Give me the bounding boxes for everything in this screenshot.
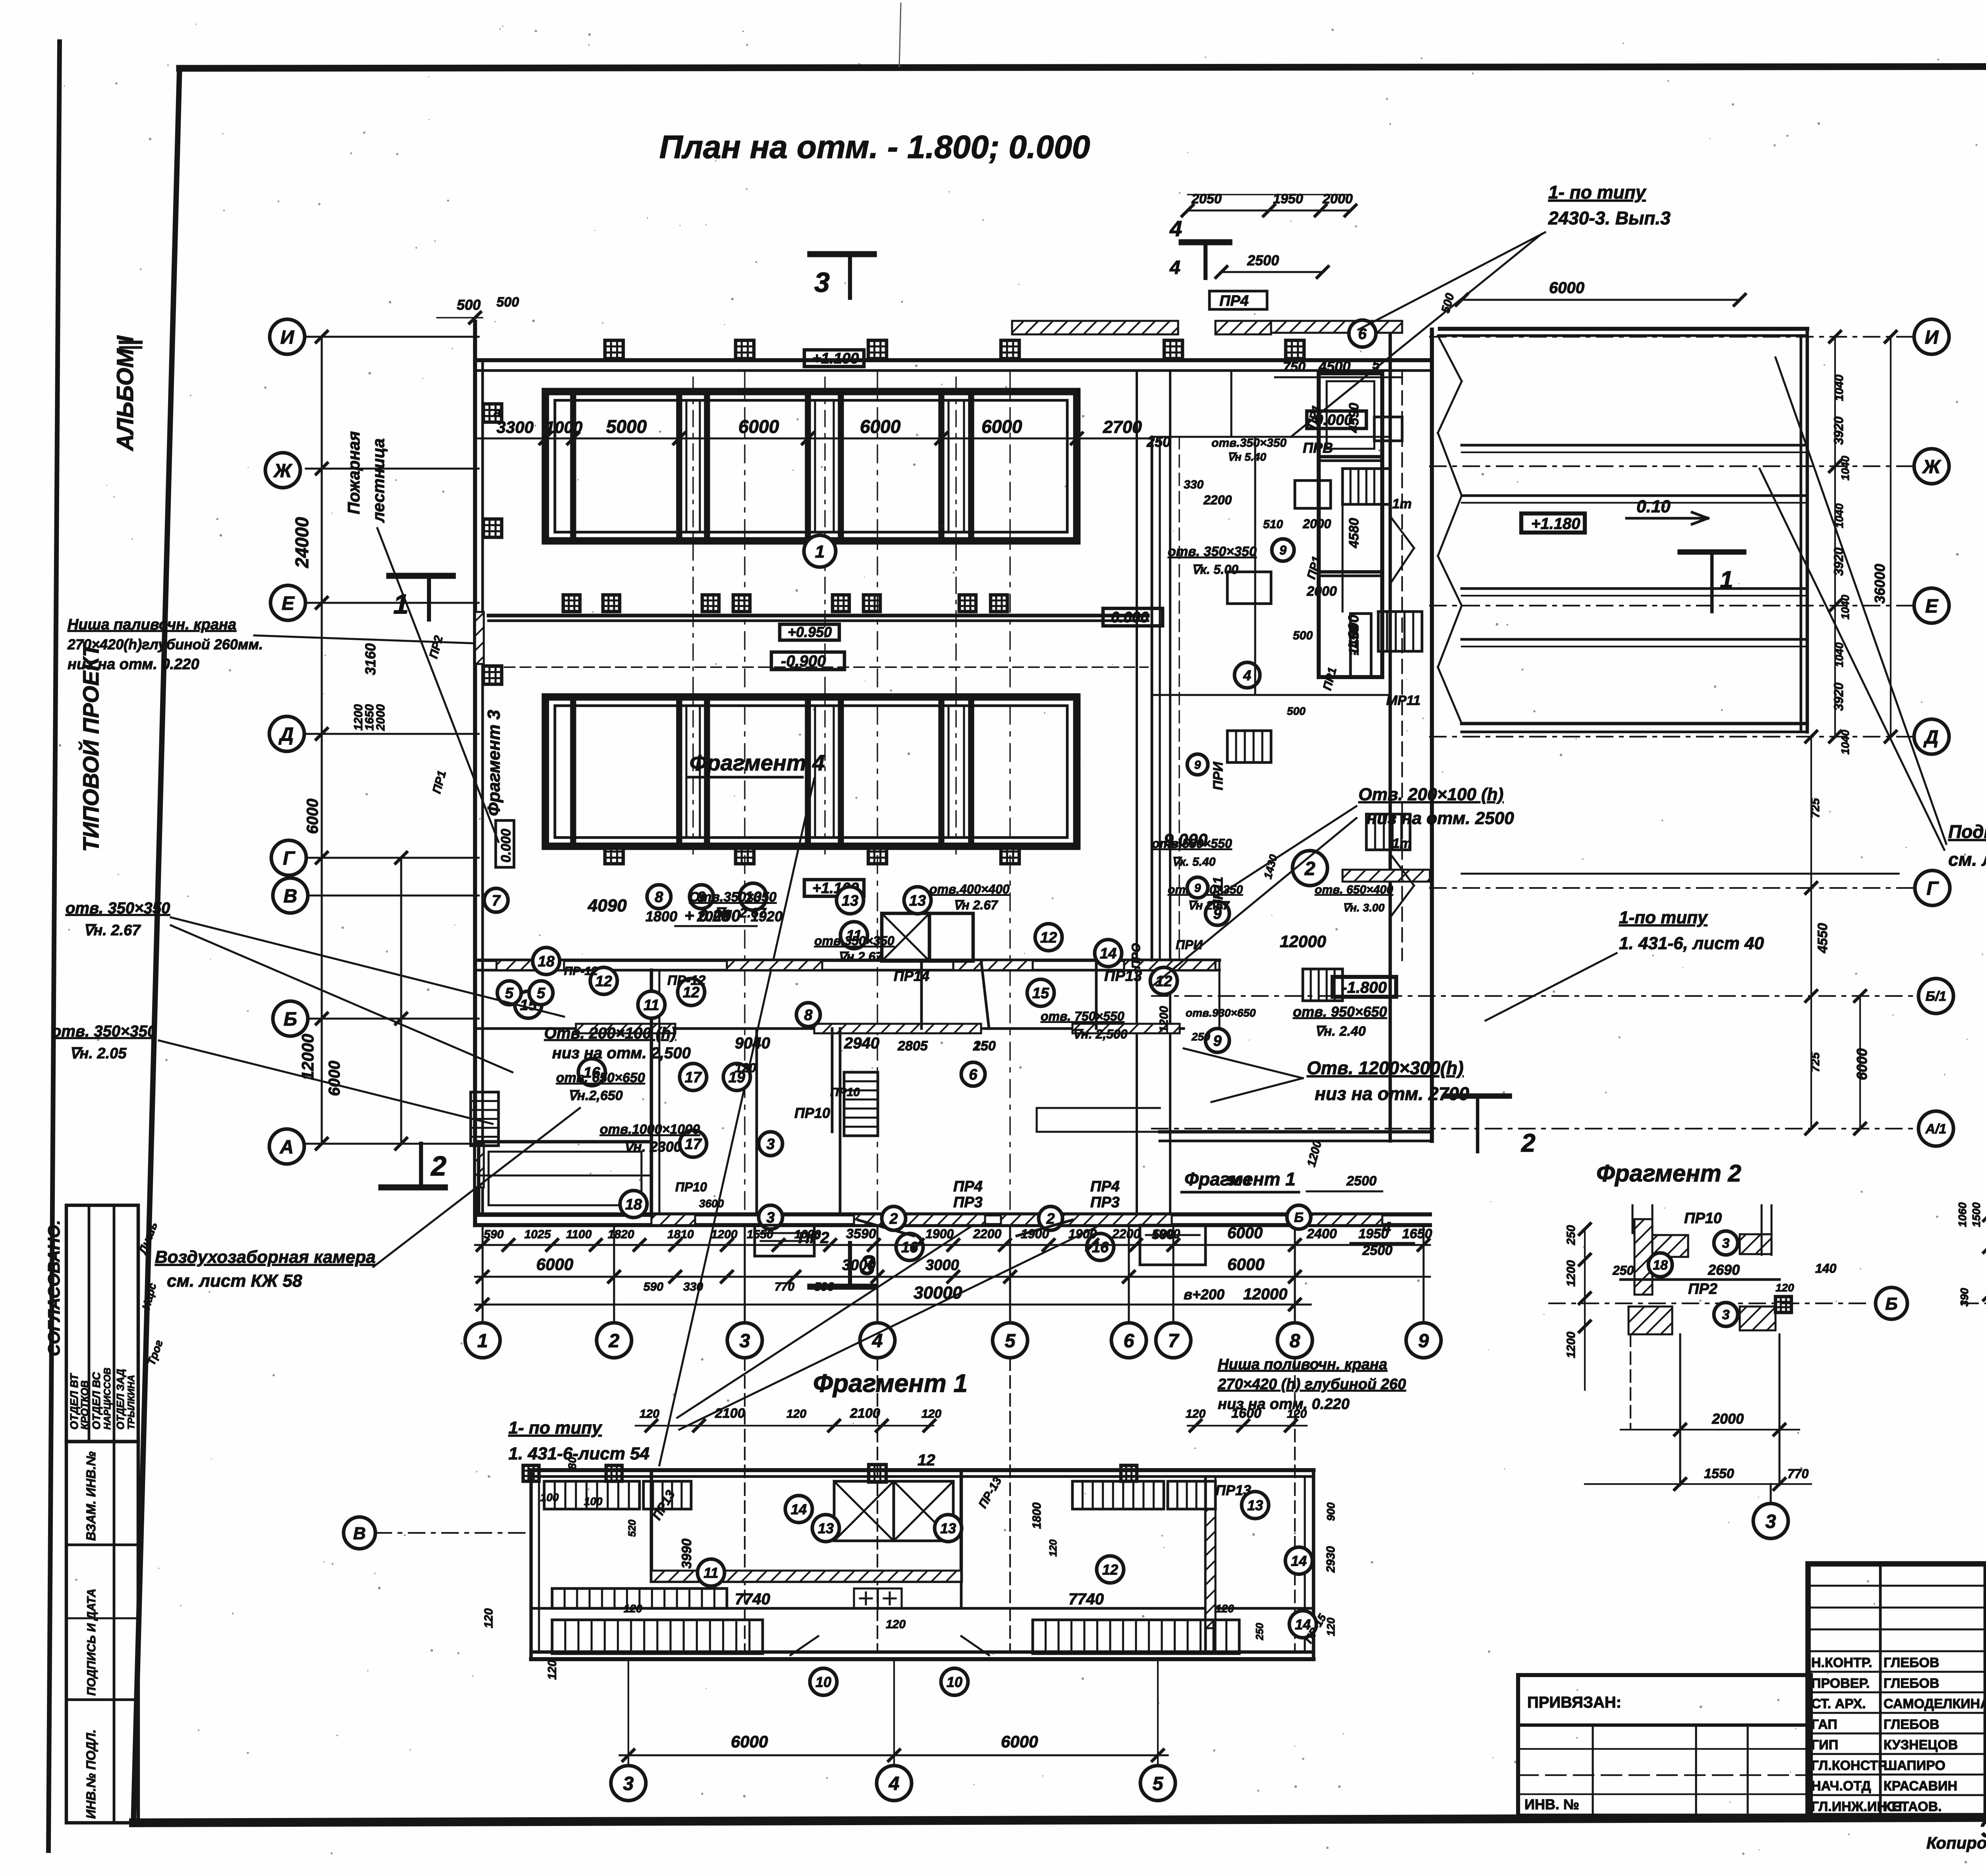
otv 350 row G	[689, 882, 1243, 921]
svg-text:Воздухозаборная камера: Воздухозаборная камера	[155, 1247, 376, 1267]
svg-text:+0.950: +0.950	[788, 624, 832, 640]
room 13b	[904, 887, 931, 914]
f1 bottom wall	[531, 1652, 1314, 1659]
svg-text:12000: 12000	[1280, 932, 1326, 951]
axis circle 1	[465, 1323, 500, 1358]
rp section2 flag	[1446, 1096, 1536, 1157]
dept table	[66, 1205, 138, 1442]
otv350 lower	[52, 1023, 156, 1062]
svg-text:ПРИВЯЗАН:: ПРИВЯЗАН:	[1527, 1694, 1621, 1711]
svg-text:12: 12	[918, 1451, 935, 1469]
rp 36000	[1872, 331, 1896, 742]
svg-text:2: 2	[430, 1150, 446, 1181]
entry porches	[755, 1225, 1206, 1265]
svg-text:6000: 6000	[1001, 1732, 1038, 1751]
niche text	[67, 616, 263, 673]
room 11	[840, 922, 867, 949]
f2 mid line	[1612, 1261, 1837, 1280]
rp top wall	[1440, 329, 1807, 336]
hall top dims	[1182, 191, 1356, 216]
nisha text 2	[1217, 1356, 1406, 1413]
level +1.100	[804, 350, 864, 367]
svg-text:отв.400×400: отв.400×400	[929, 882, 1010, 896]
rp axis circle G	[1915, 870, 1950, 905]
fire ladder leader	[377, 528, 498, 842]
svg-text:11: 11	[643, 997, 659, 1014]
svg-text:1060: 1060	[1956, 1202, 1969, 1227]
titleblock outline	[1808, 1564, 1986, 1816]
room 15b	[1027, 979, 1054, 1006]
hall extra boxes	[1227, 417, 1402, 1001]
f1 upper room	[651, 1470, 961, 1582]
svg-text:ГЛЕБОВ: ГЛЕБОВ	[1884, 1676, 1939, 1691]
svg-text:6000: 6000	[981, 416, 1022, 437]
texts 500 1500 hall	[1227, 1139, 1382, 1191]
stacked tanks main	[1319, 373, 1382, 677]
rp right wall	[1801, 329, 1807, 732]
svg-text:120: 120	[639, 1407, 659, 1421]
svg-text:3920: 3920	[1831, 683, 1846, 711]
svg-text:низ на отм. 2500: низ на отм. 2500	[1366, 809, 1514, 828]
svg-text:И: И	[1925, 327, 1939, 348]
rp top ann	[1548, 182, 1671, 228]
svg-text:270×420(h)глубиной 260мм.: 270×420(h)глубиной 260мм.	[67, 636, 263, 652]
axis leader lines bottom	[483, 1225, 1424, 1322]
svg-text:ИНВ. №: ИНВ. №	[1524, 1796, 1579, 1812]
svg-text:МР11: МР11	[1386, 693, 1420, 708]
room 8b	[796, 1003, 820, 1027]
f1 door arcs	[790, 1636, 989, 1655]
upper int dim text	[496, 416, 1171, 450]
podpor text	[1948, 821, 1986, 870]
svg-text:7: 7	[492, 893, 501, 909]
room 17b	[680, 1130, 707, 1157]
svg-text:∇н. 2300: ∇н. 2300	[624, 1139, 682, 1155]
svg-text:6000: 6000	[731, 1732, 768, 1751]
f1 Zh circle	[344, 1517, 531, 1549]
circle 4 hall	[1234, 662, 1260, 688]
svg-text:120: 120	[1047, 1539, 1059, 1557]
svg-text:770: 770	[1787, 1467, 1809, 1481]
room 12a	[1035, 924, 1062, 951]
f1 axis lines	[745, 1358, 1295, 1652]
svg-text:13: 13	[940, 1520, 956, 1536]
rp 6000 low	[1854, 990, 1870, 1134]
svg-text:Г: Г	[283, 848, 296, 869]
svg-text:14: 14	[1291, 1553, 1307, 1569]
svg-text:9: 9	[1194, 759, 1201, 772]
svg-text:отв. 950×650: отв. 950×650	[1293, 1004, 1387, 1020]
otv350 upper	[66, 899, 170, 939]
top dims small	[1188, 194, 1350, 195]
svg-text:6000: 6000	[1227, 1224, 1263, 1242]
svg-text:7: 7	[1168, 1330, 1180, 1351]
svg-text:1040: 1040	[1833, 642, 1845, 667]
svg-text:1650: 1650	[1402, 1226, 1432, 1241]
label PR11 rot	[1194, 756, 1226, 909]
svg-text:2430-3. Вып.3: 2430-3. Вып.3	[1548, 208, 1671, 228]
svg-text:1040: 1040	[1839, 594, 1851, 620]
svg-text:3920: 3920	[1831, 417, 1846, 445]
svg-text:7740: 7740	[735, 1590, 770, 1608]
svg-text:Б: Б	[284, 1009, 297, 1030]
svg-text:330: 330	[683, 1280, 703, 1293]
svg-text:1. 431-6, лист 40: 1. 431-6, лист 40	[1619, 934, 1764, 953]
svg-text:1020: 1020	[794, 1228, 821, 1241]
svg-text:520: 520	[626, 1519, 638, 1537]
axis circle I	[270, 319, 305, 354]
po tipu 54 leaders	[677, 1225, 1096, 1430]
level 0.000 hall	[1307, 411, 1366, 428]
svg-text:ПР10: ПР10	[1684, 1210, 1722, 1227]
svg-text:250: 250	[1191, 1031, 1210, 1043]
f1 top dims right	[1186, 1406, 1307, 1431]
otv950	[1293, 1004, 1387, 1039]
svg-text:18: 18	[625, 1197, 642, 1213]
inv no label	[1524, 1796, 1579, 1812]
svg-text:14: 14	[791, 1501, 807, 1517]
svg-text:4580: 4580	[1347, 518, 1362, 548]
axis circle 9	[1406, 1323, 1441, 1358]
svg-text:Копировал: Копировал	[1926, 1834, 1986, 1852]
titleblock names	[1811, 1648, 1986, 1814]
f2 verticals	[1631, 1334, 1779, 1485]
svg-text:5: 5	[1153, 1773, 1164, 1794]
fire ladder label	[344, 431, 388, 523]
otv200 leaders	[1154, 806, 1356, 985]
f1 left texts	[482, 1457, 578, 1628]
dim 2500	[1216, 252, 1328, 278]
svg-text:120: 120	[1775, 1282, 1794, 1294]
rp axis circle E	[1914, 588, 1949, 623]
svg-text:ВЗАМ. ИНВ.№: ВЗАМ. ИНВ.№	[84, 1451, 98, 1541]
room 16b	[896, 1233, 923, 1260]
svg-text:2500: 2500	[1346, 1173, 1377, 1189]
svg-text:3: 3	[860, 1250, 875, 1281]
svg-text:5: 5	[537, 985, 545, 1002]
main plan title	[659, 129, 1090, 165]
dept sign squiggles	[136, 1220, 165, 1367]
svg-text:6000: 6000	[738, 416, 779, 437]
f1 texts dims	[546, 1495, 1337, 1680]
room 12d	[1150, 967, 1177, 994]
svg-text:1600: 1600	[1231, 1406, 1262, 1421]
f1 cross braces	[834, 1465, 953, 1541]
signature big	[1976, 1806, 1986, 1843]
svg-text:ИНВ.№ ПОДЛ.: ИНВ.№ ПОДЛ.	[84, 1729, 98, 1819]
level +0.950	[780, 624, 839, 640]
svg-text:6000: 6000	[326, 1061, 343, 1096]
svg-text:ПРИ: ПРИ	[1176, 938, 1203, 952]
bottom dim row 3	[475, 1283, 1311, 1310]
svg-text:1. 431-6-лист 54: 1. 431-6-лист 54	[508, 1444, 649, 1463]
axis circle 5	[993, 1323, 1028, 1358]
svg-text:770: 770	[775, 1280, 794, 1293]
svg-text:-0.900: -0.900	[781, 652, 826, 670]
agreed label	[44, 1220, 63, 1356]
album label	[112, 335, 138, 452]
rp lower dims	[1806, 731, 1830, 1134]
otv texts left rooms	[544, 1025, 700, 1155]
level 0.000 hall2	[1103, 608, 1163, 626]
svg-text:6: 6	[969, 1067, 978, 1083]
svg-text:12: 12	[1102, 1561, 1118, 1578]
svg-text:1800: 1800	[645, 908, 677, 924]
svg-text:ПР3: ПР3	[953, 1194, 983, 1211]
svg-text:13: 13	[842, 893, 858, 909]
svg-text:1т: 1т	[1392, 496, 1412, 511]
svg-text:Г: Г	[1926, 878, 1939, 899]
podpor leader	[1760, 357, 1946, 850]
svg-text:5: 5	[1005, 1330, 1016, 1351]
svg-text:ПРОВЕР.: ПРОВЕР.	[1811, 1676, 1870, 1691]
room 17	[680, 1063, 707, 1090]
axis circle 3	[727, 1323, 762, 1358]
svg-text:4: 4	[1169, 216, 1182, 241]
svg-text:отв.930×650: отв.930×650	[1186, 1007, 1256, 1019]
room 15a	[515, 991, 542, 1018]
svg-text:2690: 2690	[1708, 1262, 1740, 1278]
svg-text:330: 330	[1184, 478, 1204, 491]
otv1200 text	[1307, 1058, 1469, 1104]
svg-text:6000: 6000	[304, 799, 321, 834]
svg-text:отв. 350×350: отв. 350×350	[1168, 544, 1257, 559]
air intake text	[155, 1247, 376, 1291]
bottom dim text b200	[1184, 1285, 1287, 1303]
svg-text:120: 120	[886, 1618, 906, 1631]
small left dims	[352, 704, 387, 731]
svg-text:1820: 1820	[608, 1228, 634, 1241]
svg-text:30000: 30000	[914, 1283, 962, 1303]
f1 stair top left	[544, 1481, 691, 1509]
room 7	[484, 888, 508, 912]
svg-text:Отв. 1200×300(h): Отв. 1200×300(h)	[1307, 1058, 1464, 1078]
svg-text:А: А	[280, 1137, 294, 1158]
svg-text:КУЗНЕЦОВ: КУЗНЕЦОВ	[1884, 1737, 1958, 1752]
svg-text:ПР4: ПР4	[953, 1178, 983, 1195]
f1 bottom circles	[628, 1659, 1158, 1765]
svg-text:см. лист КЖ 58: см. лист КЖ 58	[167, 1271, 302, 1291]
room 9	[690, 885, 713, 909]
air chamber box	[479, 1142, 651, 1215]
svg-text:3160: 3160	[362, 643, 379, 675]
stair mid	[844, 1072, 878, 1136]
section mark 3 bottom	[810, 1243, 875, 1287]
rp axes	[1152, 337, 1915, 1129]
svg-text:3: 3	[814, 267, 830, 298]
room 3a	[759, 1132, 782, 1156]
svg-text:6000: 6000	[536, 1255, 573, 1274]
svg-text:10: 10	[815, 1674, 831, 1690]
po tipu 40	[1619, 908, 1764, 953]
svg-text:ПР4: ПР4	[1090, 1178, 1120, 1195]
titleblock left cols	[1880, 1564, 1986, 1816]
svg-text:4590: 4590	[1347, 403, 1362, 433]
axis circle D	[269, 716, 304, 751]
room 3b	[759, 1205, 782, 1229]
label PR3 PR4	[953, 1178, 1175, 1242]
circle 9 hall	[1272, 539, 1294, 561]
svg-text:2: 2	[889, 1211, 898, 1228]
svg-text:1100: 1100	[566, 1228, 592, 1241]
svg-text:ПР3: ПР3	[1090, 1194, 1120, 1211]
room walls vertical	[651, 960, 1219, 1214]
axis circle A	[269, 1129, 304, 1164]
left wall labels	[427, 405, 501, 795]
label PRv	[1211, 436, 1333, 463]
svg-text:И: И	[280, 327, 295, 348]
right section wall	[1390, 322, 1432, 1141]
svg-text:ПР-12: ПР-12	[564, 965, 598, 978]
svg-text:750: 750	[1283, 359, 1306, 374]
svg-text:1900: 1900	[925, 1227, 954, 1241]
hall2 step	[1037, 1108, 1160, 1132]
svg-text:лестница: лестница	[369, 438, 388, 523]
svg-text:12000: 12000	[298, 1034, 317, 1080]
f1 mid wall	[531, 1476, 1314, 1652]
otv350 lower leader	[159, 1040, 493, 1124]
rp axis circle B1	[1918, 979, 1953, 1013]
svg-text:250: 250	[1565, 1225, 1578, 1245]
svg-text:1900: 1900	[1021, 1227, 1049, 1241]
otv200 text	[1358, 785, 1514, 828]
svg-text:см. лист 3, марки КЖ: см. лист 3, марки КЖ	[1948, 849, 1986, 870]
svg-text:2400: 2400	[1306, 1226, 1337, 1241]
svg-text:∇н 2.67: ∇н 2.67	[953, 898, 999, 912]
rp axis circle D	[1914, 719, 1949, 754]
svg-text:ГЛ.КОНСТР: ГЛ.КОНСТР	[1811, 1758, 1887, 1773]
stair sym hall	[1343, 469, 1422, 651]
svg-text:1000: 1000	[545, 418, 582, 436]
elevator cross	[882, 913, 973, 961]
svg-text:590: 590	[643, 1280, 663, 1293]
svg-text:отв. 750×550: отв. 750×550	[1041, 1009, 1124, 1023]
svg-text:500: 500	[1287, 705, 1306, 717]
svg-text:120: 120	[1325, 1617, 1337, 1636]
svg-text:500: 500	[457, 297, 481, 313]
svg-text:3000: 3000	[925, 1257, 959, 1274]
svg-text:ПР4: ПР4	[1219, 293, 1249, 309]
room 10	[740, 883, 767, 910]
svg-text:НАРЦИССОВ: НАРЦИССОВ	[102, 1368, 113, 1430]
top wall hatch	[1012, 321, 1271, 334]
svg-text:120: 120	[624, 1602, 642, 1615]
svg-text:17: 17	[685, 1069, 702, 1086]
svg-text:500: 500	[1293, 629, 1313, 642]
f2 walls upper	[1632, 1205, 1688, 1295]
svg-text:2050: 2050	[1191, 191, 1222, 207]
f3 axis B	[1962, 1303, 1986, 1304]
f1 top wall	[531, 1470, 1314, 1476]
room 6	[961, 1062, 985, 1086]
svg-text:ГЛЕБОВ: ГЛЕБОВ	[1884, 1717, 1939, 1732]
svg-text:КРОТКОВ: КРОТКОВ	[79, 1380, 91, 1430]
bottom dim row 1	[475, 1239, 1430, 1251]
niche leader	[254, 635, 475, 643]
svg-text:1950: 1950	[1273, 191, 1303, 207]
svg-text:120: 120	[1215, 1602, 1234, 1615]
svg-text:Ниша паливочн. крана: Ниша паливочн. крана	[68, 616, 236, 633]
axis dashdot verticals	[745, 371, 1010, 1214]
svg-text:ШАПИРО: ШАПИРО	[1884, 1758, 1945, 1773]
svg-text:3990: 3990	[679, 1538, 694, 1569]
svg-text:4090: 4090	[587, 896, 627, 915]
room 8	[647, 885, 671, 909]
rp walls rows	[1462, 445, 1807, 732]
svg-text:510: 510	[1263, 518, 1283, 531]
svg-text:7740: 7740	[1068, 1590, 1104, 1608]
svg-text:∇н. 2.67: ∇н. 2.67	[715, 905, 767, 921]
axis circle 4	[860, 1323, 895, 1358]
svg-text:2200: 2200	[1203, 493, 1232, 507]
svg-text:120: 120	[735, 1061, 756, 1075]
svg-text:Фрагмент 4: Фрагмент 4	[690, 750, 825, 775]
svg-text:5: 5	[505, 985, 514, 1002]
texts otv550	[1152, 836, 1393, 914]
fragment4 label in plan	[687, 750, 825, 777]
svg-text:∇н. 2.40: ∇н. 2.40	[1315, 1024, 1366, 1039]
f1 circle 5	[1140, 1766, 1175, 1801]
svg-text:100: 100	[584, 1495, 603, 1507]
svg-text:12: 12	[1040, 930, 1057, 946]
svg-text:В: В	[353, 1524, 366, 1543]
svg-text:ПР14: ПР14	[894, 968, 929, 984]
svg-text:КЕТАОВ.: КЕТАОВ.	[1884, 1799, 1942, 1814]
svg-text:120: 120	[546, 1660, 559, 1680]
svg-text:ПР13: ПР13	[1104, 968, 1142, 984]
svg-text:1450: 1450	[1347, 625, 1362, 655]
svg-text:ТИПОВОЙ ПРОЕКТ: ТИПОВОЙ ПРОЕКТ	[78, 642, 103, 852]
section mark 3 top	[810, 254, 874, 298]
label MP11	[1287, 693, 1420, 717]
fragment1 title	[813, 1369, 968, 1397]
svg-text:Ж: Ж	[1922, 456, 1942, 477]
privyazan label	[1527, 1694, 1621, 1711]
svg-text:+1.180: +1.180	[1531, 515, 1580, 533]
svg-text:2500: 2500	[1362, 1243, 1393, 1258]
room circle 1	[804, 535, 836, 567]
svg-text:15: 15	[1032, 985, 1049, 1002]
axis circle 8	[1277, 1323, 1312, 1358]
f1 right wall	[1305, 1470, 1314, 1659]
stairs lower hall	[1227, 731, 1410, 850]
project type label	[78, 642, 103, 852]
svg-text:2000: 2000	[1712, 1411, 1744, 1427]
svg-text:9: 9	[1279, 543, 1287, 558]
f1 circle 3	[611, 1766, 646, 1801]
svg-text:17: 17	[685, 1136, 702, 1153]
fragment3 vertical label	[484, 710, 504, 816]
svg-text:24000: 24000	[292, 517, 312, 568]
svg-text:1200: 1200	[1565, 1260, 1578, 1287]
section mark 2 left	[381, 1144, 446, 1187]
fragment1 small label	[1182, 1169, 1299, 1192]
axis circle 2	[597, 1323, 632, 1358]
tank texts	[1305, 403, 1362, 692]
f1 left wall	[531, 1470, 539, 1659]
svg-text:4: 4	[1382, 1219, 1391, 1237]
svg-text:ПРО: ПРО	[1130, 943, 1143, 969]
top wall	[475, 360, 1430, 371]
svg-text:18: 18	[538, 953, 555, 970]
dim 500 top	[437, 295, 519, 323]
f2 walls upper2	[1740, 1205, 1772, 1255]
svg-text:1040: 1040	[1839, 455, 1851, 481]
svg-text:отв. 650×400: отв. 650×400	[1315, 883, 1393, 896]
svg-text:13: 13	[1247, 1497, 1263, 1513]
room 14	[1095, 940, 1122, 967]
svg-text:1800: 1800	[1030, 1502, 1043, 1529]
